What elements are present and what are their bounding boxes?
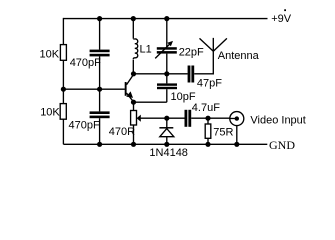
- svg-text:Antenna: Antenna: [218, 50, 260, 62]
- svg-text:22pF: 22pF: [179, 46, 204, 58]
- node video / D1: [164, 116, 169, 121]
- wire into connector center: [229, 117, 236, 119]
- connector J1 video input outer ring: [230, 112, 244, 126]
- wire C3 branch lower: [166, 54, 168, 74]
- wire left branch lower: [62, 119, 64, 144]
- wire collector rail: [134, 73, 188, 75]
- wire 75R branch upper: [207, 118, 209, 124]
- wire L1 branch lower: [132, 60, 134, 74]
- svg-text:470R: 470R: [109, 126, 135, 138]
- wire L1 branch upper: [132, 19, 134, 39]
- connector J1 center pin: [235, 116, 239, 120]
- svg-text:470pF: 470pF: [69, 119, 100, 131]
- transistor Q1 collector lead: [127, 75, 134, 85]
- resistor R1 10K: [60, 45, 66, 61]
- diode D1 1N4148 cathode bar: [159, 127, 173, 129]
- svg-text:470pF: 470pF: [70, 57, 101, 69]
- node collector / L1: [131, 71, 136, 76]
- wire video line right: [191, 117, 230, 119]
- svg-text:GND: GND: [269, 138, 295, 152]
- wire emitter to R3: [133, 102, 135, 110]
- wire C2 branch lower: [99, 118, 101, 144]
- node top rail / L1: [131, 16, 136, 21]
- wire connector to GND: [236, 126, 238, 145]
- node mid rail / C1 C2: [97, 87, 102, 92]
- wire diode to GND: [166, 137, 168, 145]
- node mid rail / left branch: [61, 87, 66, 92]
- wire emitter line: [134, 101, 167, 103]
- stray dot above +9V: [284, 9, 286, 11]
- resistor R2 10K: [60, 104, 66, 120]
- resistor R3 470R: [131, 111, 137, 126]
- video injection arrow into R3: [137, 115, 141, 122]
- node collector / C3 C5: [164, 71, 169, 76]
- svg-text:10K: 10K: [40, 106, 60, 118]
- node top rail / C3: [164, 16, 169, 21]
- node top rail / C1: [97, 16, 102, 21]
- capacitor C3 22pF variable: [157, 47, 177, 53]
- svg-text:+9V: +9V: [271, 13, 292, 25]
- wire GND bottom rail: [63, 143, 267, 145]
- svg-text:1N4148: 1N4148: [149, 147, 188, 159]
- capacitor C5 10pF: [157, 83, 177, 89]
- wire mid bias rail: [63, 88, 125, 90]
- wire +9V top rail: [63, 18, 267, 20]
- antenna symbol: [200, 38, 227, 51]
- wire diode branch upper: [166, 118, 168, 128]
- wire video line left: [141, 117, 185, 119]
- variable arrow of C3: [155, 41, 173, 59]
- resistor R4 75R: [205, 124, 211, 138]
- wire C1 branch upper: [99, 19, 101, 50]
- wire C1 branch lower: [99, 56, 101, 89]
- node GND / C2: [97, 142, 102, 147]
- diode D1 triangle: [160, 129, 174, 137]
- svg-text:Video Input: Video Input: [250, 115, 305, 127]
- capacitor C2 470pF: [90, 111, 110, 118]
- node video / R4: [205, 116, 210, 121]
- transistor Q1 emitter lead: [127, 93, 134, 102]
- transistor Q1 base bar: [125, 82, 127, 96]
- capacitor C4 47pF: [188, 66, 195, 83]
- svg-text:4.7uF: 4.7uF: [192, 102, 220, 114]
- wire left branch middle: [62, 60, 64, 103]
- node GND / R3: [131, 142, 136, 147]
- transistor Q1 emitter arrow: [126, 91, 133, 98]
- wire R3 to GND: [133, 125, 135, 144]
- capacitor C6 4.7uF: [185, 110, 192, 127]
- wire left branch upper: [62, 18, 64, 45]
- wire R4 to GND: [207, 138, 209, 144]
- inductor L1: [133, 38, 137, 59]
- node emitter: [131, 100, 136, 105]
- node GND / D1: [164, 142, 169, 147]
- wire 47pF to antenna: [194, 38, 213, 74]
- wire C5 branch upper: [166, 74, 168, 84]
- node GND / J1: [234, 142, 239, 147]
- svg-text:L1: L1: [140, 43, 152, 55]
- wire C5 branch lower: [166, 89, 168, 102]
- svg-text:47pF: 47pF: [197, 77, 222, 89]
- svg-text:75R: 75R: [213, 127, 233, 139]
- capacitor C1 470pF: [90, 50, 110, 57]
- svg-text:10K: 10K: [40, 48, 60, 60]
- wire C3 branch upper: [166, 19, 168, 48]
- wire C2 branch upper: [99, 89, 101, 111]
- node GND / R4: [205, 142, 210, 147]
